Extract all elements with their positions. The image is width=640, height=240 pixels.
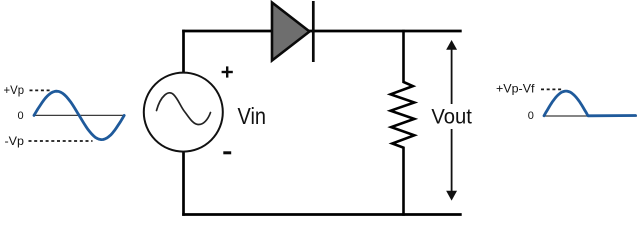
Vout measurement arrow (double headed) [451, 46, 453, 104]
svg-text:+Vp-Vf: +Vp-Vf [496, 82, 535, 96]
input waveform axis [34, 114, 124, 116]
wire top (node A to node B) [182, 30, 462, 33]
diode D1 cathode bar [312, 1, 315, 62]
dashed leader to -Vp trough [29, 140, 93, 142]
resistor R1 zigzag [391, 30, 415, 216]
svg-text:+Vp: +Vp [4, 83, 25, 97]
input sine waveform [34, 91, 124, 139]
diode D1 triangle [272, 3, 310, 61]
minus polarity mark [223, 151, 231, 154]
output rectified waveform [544, 91, 636, 116]
dashed leader to +Vp peak [30, 89, 52, 91]
svg-text:Vin: Vin [238, 103, 267, 129]
svg-text:0: 0 [18, 110, 24, 122]
wire left upper [182, 30, 185, 73]
wire left lower [182, 152, 185, 216]
svg-text:-Vp: -Vp [5, 134, 25, 148]
wire bottom [182, 213, 462, 216]
plus polarity mark [222, 71, 233, 73]
svg-text:Vout: Vout [431, 104, 472, 128]
AC source V1 circle [144, 73, 223, 152]
dashed leader to output peak [541, 88, 563, 90]
svg-text:0: 0 [528, 110, 534, 122]
AC source sine symbol [157, 93, 211, 125]
output waveform axis [544, 115, 637, 117]
